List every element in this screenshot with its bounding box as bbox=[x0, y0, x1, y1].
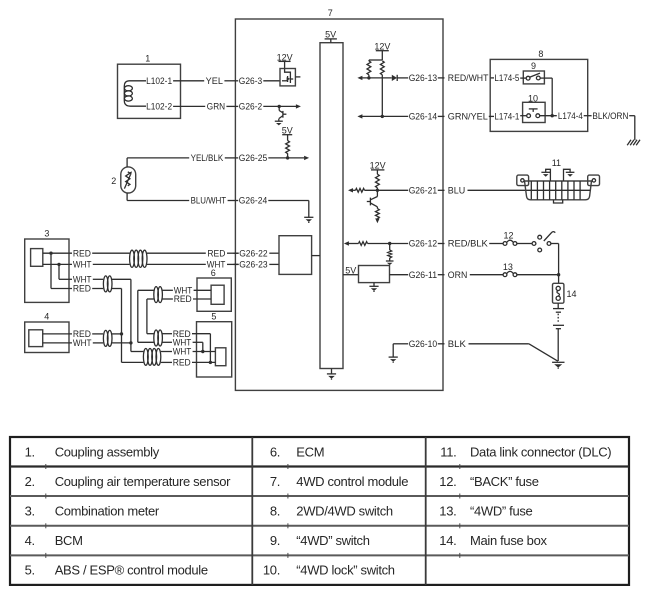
node (junction at main fuse) bbox=[557, 273, 560, 276]
wire (G26-10 to ground) bbox=[392, 344, 394, 357]
wire RED (ECM) bbox=[147, 294, 211, 334]
resistor R2 bbox=[367, 60, 371, 78]
svg-text:9: 9 bbox=[531, 61, 536, 71]
ground (R6) bbox=[386, 261, 394, 265]
ground (Q2 emitter) bbox=[275, 119, 283, 126]
svg-text:G26-10: G26-10 bbox=[409, 339, 437, 349]
wire RED/WHT bbox=[448, 73, 494, 83]
svg-text:Coupling air temperature senso: Coupling air temperature sensor bbox=[55, 474, 231, 489]
resistor R3 bbox=[380, 61, 384, 117]
svg-text:7.: 7. bbox=[270, 474, 280, 489]
wire (Q1 output stub) bbox=[295, 76, 300, 78]
svg-text:RED: RED bbox=[73, 248, 91, 258]
svg-text:ABS / ESP® control module: ABS / ESP® control module bbox=[55, 563, 208, 578]
svg-text:13.: 13. bbox=[439, 504, 456, 519]
svg-text:9.: 9. bbox=[270, 533, 280, 548]
svg-text:RED: RED bbox=[73, 284, 91, 294]
svg-text:RED: RED bbox=[173, 358, 191, 368]
resistor R1 (pull-up to 5V) bbox=[286, 141, 290, 154]
twisted pair (ABS lower) bbox=[143, 349, 160, 366]
ground (regulator) bbox=[369, 283, 378, 292]
svg-text:WHT: WHT bbox=[173, 347, 192, 357]
svg-text:WHT: WHT bbox=[207, 260, 226, 270]
svg-text:12: 12 bbox=[503, 231, 513, 241]
svg-text:2.: 2. bbox=[25, 474, 35, 489]
svg-text:ORN: ORN bbox=[448, 270, 468, 280]
combination meter box 3 bbox=[25, 239, 69, 302]
wire YEL/BLK bbox=[127, 153, 234, 167]
svg-text:G26-12: G26-12 bbox=[409, 239, 437, 249]
svg-text:7: 7 bbox=[328, 8, 333, 18]
svg-text:13: 13 bbox=[503, 262, 513, 272]
svg-text:G26-2: G26-2 bbox=[239, 102, 262, 112]
svg-text:10.: 10. bbox=[263, 563, 280, 578]
svg-text:GRN: GRN bbox=[207, 102, 225, 112]
pin G26-22 bbox=[234, 248, 280, 258]
transistor Q1 (high-side driver, boxed FET) bbox=[280, 69, 295, 86]
svg-text:5V: 5V bbox=[282, 125, 293, 135]
wire WHT (ECM) bbox=[138, 286, 211, 343]
pin L174-1 bbox=[494, 112, 526, 122]
resistor R6 (pull-down) bbox=[388, 244, 392, 261]
svg-text:RED: RED bbox=[174, 294, 192, 304]
wire BLK/ORN bbox=[592, 111, 634, 140]
pin G26-25 bbox=[234, 153, 305, 163]
transistor Q2 (low-side, NPN) bbox=[279, 106, 286, 118]
svg-text:G26-24: G26-24 bbox=[239, 196, 267, 206]
wire (down to ground) bbox=[308, 201, 310, 218]
svg-text:G26-14: G26-14 bbox=[409, 112, 437, 122]
legend table bbox=[10, 437, 629, 585]
wire (CPU to regulator) bbox=[343, 274, 359, 276]
svg-text:5.: 5. bbox=[25, 563, 35, 578]
svg-text:BLK/ORN: BLK/ORN bbox=[592, 111, 628, 121]
svg-text:Coupling assembly: Coupling assembly bbox=[55, 445, 160, 460]
svg-text:ECM: ECM bbox=[296, 445, 324, 460]
data link connector DLC 11 bbox=[525, 181, 592, 203]
twisted pair (BCM) bbox=[103, 330, 112, 346]
ECM box 6 bbox=[197, 278, 231, 311]
svg-text:L102-2: L102-2 bbox=[146, 101, 172, 111]
svg-text:12.: 12. bbox=[439, 474, 456, 489]
svg-text:“4WD” fuse: “4WD” fuse bbox=[470, 504, 533, 519]
wire (BCM to joins) bbox=[112, 334, 131, 343]
battery bbox=[553, 303, 564, 361]
svg-text:L174-1: L174-1 bbox=[494, 112, 519, 122]
svg-text:G26-22: G26-22 bbox=[239, 248, 267, 258]
wire BLK bbox=[448, 339, 558, 361]
wire arrow (to CPU) bbox=[304, 156, 309, 160]
2WD/4WD switch box 8 bbox=[490, 59, 588, 131]
twisted pair (ABS upper) bbox=[154, 330, 163, 346]
svg-text:5V: 5V bbox=[325, 29, 336, 39]
svg-text:12V: 12V bbox=[370, 160, 386, 170]
svg-text:14: 14 bbox=[567, 289, 577, 299]
BCM box 4 bbox=[25, 322, 69, 353]
node (junction G26-25) bbox=[286, 156, 289, 159]
wire WHT (to module) bbox=[147, 260, 239, 270]
svg-text:G26-3: G26-3 bbox=[239, 76, 262, 86]
table column 3 text bbox=[439, 445, 611, 549]
svg-text:L174-4: L174-4 bbox=[558, 111, 583, 121]
wire WHT (BCM) bbox=[43, 338, 103, 348]
wire (fuse 13 to main fuse) bbox=[517, 274, 559, 276]
"4WD" fuse 13 bbox=[503, 271, 517, 276]
svg-text:L102-1: L102-1 bbox=[146, 76, 172, 86]
pin G26-13 bbox=[357, 73, 444, 83]
svg-text:WHT: WHT bbox=[73, 260, 92, 270]
svg-text:2: 2 bbox=[111, 176, 116, 186]
svg-text:YEL: YEL bbox=[206, 76, 223, 86]
ground (battery) bbox=[552, 362, 564, 369]
table column 1 text bbox=[25, 445, 232, 578]
svg-text:RED/BLK: RED/BLK bbox=[448, 239, 488, 249]
power label 5V (CPU) bbox=[325, 29, 337, 42]
wire (switch 9 output) bbox=[540, 78, 552, 116]
wire WHT (ABS pin3) bbox=[131, 347, 216, 357]
pin G26-23 bbox=[234, 260, 280, 270]
wire (branch to R2) bbox=[369, 59, 382, 61]
wire WHT (meter pin 2) bbox=[43, 260, 130, 270]
wire RED (ABS pin1) bbox=[147, 329, 211, 363]
inductor L1 (coupling solenoid) bbox=[124, 81, 146, 106]
CPU block (microprocessor) U1 bbox=[320, 43, 343, 369]
regulator block (5V supply) bbox=[359, 266, 390, 283]
4WD control module box 7 bbox=[235, 19, 443, 390]
svg-text:WHT: WHT bbox=[73, 338, 92, 348]
ground (DLC right) bbox=[564, 169, 575, 181]
wire ORN bbox=[448, 270, 503, 280]
wire (meter branch verticals) bbox=[50, 253, 52, 288]
twisted pair (meter lower) bbox=[103, 276, 112, 292]
wire GRN/YEL bbox=[448, 112, 494, 122]
power label 12V (driver Q1) bbox=[277, 52, 293, 68]
svg-text:“4WD” switch: “4WD” switch bbox=[296, 533, 369, 548]
wire YEL bbox=[173, 76, 234, 86]
pin G26-14 bbox=[357, 112, 444, 122]
connector block (BCM) bbox=[29, 330, 43, 347]
svg-text:BLU/WHT: BLU/WHT bbox=[191, 196, 227, 206]
svg-text:6: 6 bbox=[211, 268, 216, 278]
pin G26-11 bbox=[390, 270, 445, 280]
"4WD" switch 9 bbox=[523, 71, 544, 84]
pin G26-24 bbox=[234, 196, 309, 206]
transistor Q3 bbox=[367, 190, 378, 207]
svg-text:5: 5 bbox=[211, 311, 216, 321]
svg-text:G26-11: G26-11 bbox=[409, 270, 437, 280]
svg-text:G26-25: G26-25 bbox=[239, 153, 267, 163]
svg-text:6.: 6. bbox=[270, 445, 280, 460]
svg-text:4: 4 bbox=[44, 312, 49, 322]
wire RED (to module) bbox=[147, 248, 239, 258]
wire RED (BCM) bbox=[43, 329, 103, 339]
main fuse box 14 bbox=[553, 283, 564, 303]
svg-text:3.: 3. bbox=[25, 504, 35, 519]
twisted pair (ECM) bbox=[154, 287, 163, 303]
ground (DLC left) bbox=[541, 169, 550, 181]
table column 2 text bbox=[263, 445, 408, 578]
svg-text:8.: 8. bbox=[270, 504, 280, 519]
svg-text:G26-13: G26-13 bbox=[409, 73, 437, 83]
svg-text:BLK: BLK bbox=[448, 339, 466, 349]
"4WD lock" switch 10 bbox=[523, 102, 546, 122]
pin G26-21 bbox=[348, 186, 445, 196]
svg-text:8: 8 bbox=[538, 49, 543, 59]
svg-text:Data link connector (DLC): Data link connector (DLC) bbox=[470, 445, 611, 460]
ground (G26-10) bbox=[389, 357, 398, 363]
DLC mounting ear right bbox=[588, 175, 600, 186]
wire BLU/WHT bbox=[127, 193, 234, 206]
wire (ignition to main fuse) bbox=[551, 244, 559, 284]
node (BCM RED join) bbox=[120, 332, 123, 335]
ground (below CPU) bbox=[327, 369, 336, 380]
svg-text:11: 11 bbox=[552, 158, 561, 168]
power label 12V (G26-21) bbox=[370, 160, 386, 174]
connector block (ECM) bbox=[211, 285, 224, 304]
pin G26-3 bbox=[234, 76, 281, 86]
"BACK" fuse 12 bbox=[503, 240, 517, 245]
svg-text:12V: 12V bbox=[374, 42, 390, 52]
svg-text:GRN/YEL: GRN/YEL bbox=[448, 112, 488, 122]
svg-text:4.: 4. bbox=[25, 533, 35, 548]
svg-text:L174-5: L174-5 bbox=[494, 73, 519, 83]
node (junction on G26-2) bbox=[278, 105, 281, 108]
svg-text:11.: 11. bbox=[440, 445, 456, 460]
resistor R4 (pull-up) bbox=[376, 174, 380, 190]
svg-text:BLU: BLU bbox=[448, 186, 465, 196]
power label 12V (G26-13 pull-ups) bbox=[374, 42, 390, 61]
wire RED/BLK bbox=[448, 239, 503, 249]
svg-text:Main fuse box: Main fuse box bbox=[470, 533, 547, 548]
wire RED (ABS pin4) bbox=[122, 358, 216, 368]
wire (block to CPU) bbox=[312, 255, 320, 257]
wire RED (meter lower) bbox=[51, 284, 103, 294]
coupling assembly box 1 bbox=[118, 64, 181, 118]
svg-text:2WD/4WD switch: 2WD/4WD switch bbox=[296, 504, 393, 519]
power label 5V (pull-up) bbox=[282, 125, 293, 140]
pin L174-4 bbox=[540, 111, 592, 121]
wire arrow (down) bbox=[375, 218, 379, 223]
svg-text:G26-23: G26-23 bbox=[239, 260, 267, 270]
node (BCM WHT join) bbox=[129, 341, 132, 344]
svg-text:14.: 14. bbox=[439, 533, 456, 548]
connector block (meter) bbox=[31, 249, 43, 267]
pin L174-5 bbox=[494, 73, 526, 83]
svg-text:1.: 1. bbox=[25, 445, 35, 460]
connector block (ABS) bbox=[215, 348, 226, 366]
wire arrow (to CPU) bbox=[296, 104, 301, 108]
ignition switch bbox=[517, 232, 555, 252]
svg-text:“4WD lock” switch: “4WD lock” switch bbox=[296, 563, 394, 578]
wire WHT (ABS pin2) bbox=[138, 338, 203, 352]
svg-text:4WD control module: 4WD control module bbox=[296, 474, 408, 489]
resistor R5 (emitter) bbox=[376, 207, 380, 219]
svg-text:RED/WHT: RED/WHT bbox=[448, 73, 489, 83]
pin G26-2 bbox=[234, 102, 297, 112]
twisted pair (to G26-22/23) bbox=[130, 250, 147, 267]
wire GRN bbox=[173, 102, 234, 112]
pin G26-10 bbox=[393, 339, 444, 349]
svg-text:BCM: BCM bbox=[55, 533, 83, 548]
wire (lower pair corners) bbox=[112, 279, 131, 362]
svg-text:3: 3 bbox=[44, 229, 49, 239]
interface block (sensor input) bbox=[279, 236, 312, 275]
svg-text:RED: RED bbox=[207, 248, 225, 258]
pin G26-12 bbox=[344, 239, 445, 249]
svg-text:Combination meter: Combination meter bbox=[55, 504, 160, 519]
chassis ground (BLK/ORN) bbox=[627, 140, 640, 146]
svg-text:1: 1 bbox=[145, 54, 150, 64]
DLC mounting ear left bbox=[517, 175, 529, 186]
svg-text:YEL/BLK: YEL/BLK bbox=[191, 153, 224, 163]
ABS/ESP control module box 5 bbox=[197, 322, 232, 377]
coupling air temperature sensor (thermistor) bbox=[121, 167, 136, 193]
wire WHT (meter lower) bbox=[59, 275, 103, 285]
svg-text:“BACK” fuse: “BACK” fuse bbox=[470, 474, 539, 489]
svg-text:G26-21: G26-21 bbox=[409, 186, 437, 196]
wire BLU bbox=[448, 186, 526, 196]
ground (G26-24) bbox=[304, 217, 313, 223]
wire RED (meter pin 1) bbox=[43, 248, 130, 258]
